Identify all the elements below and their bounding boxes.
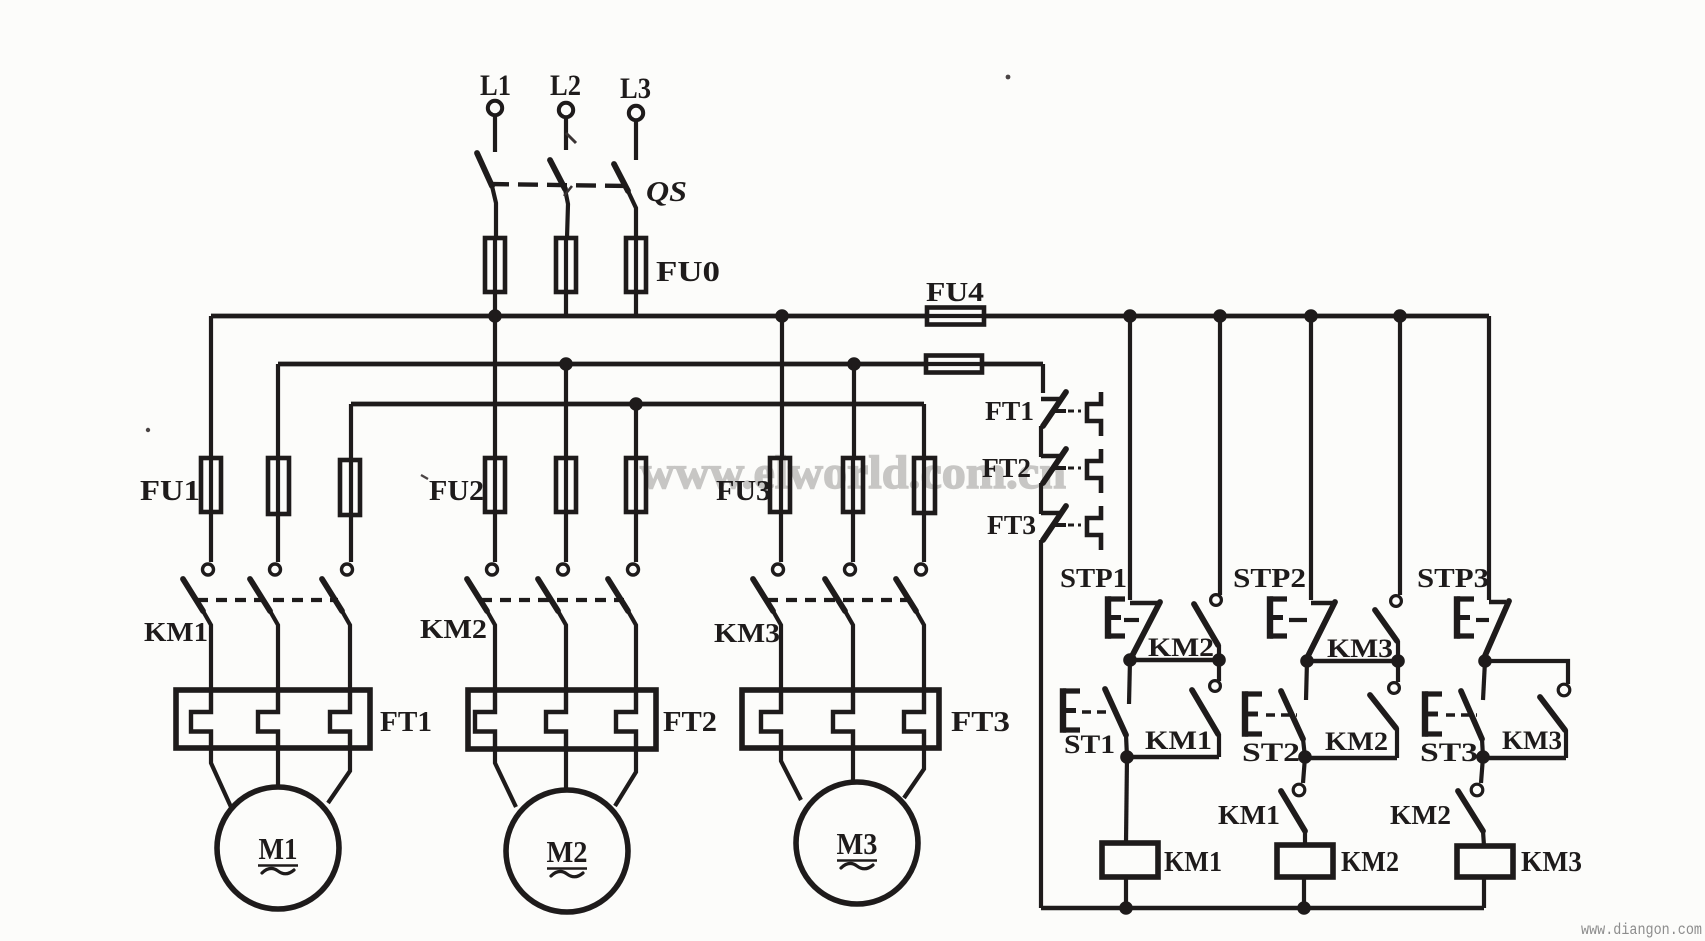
motor M2 xyxy=(506,790,628,912)
label KM3 (self-hold) xyxy=(1502,726,1562,755)
label FU3 xyxy=(716,476,771,507)
label KM1 (interlock) xyxy=(1218,800,1280,830)
fuse FU1 pole 2 xyxy=(268,458,289,562)
wire FT1 to M1 right xyxy=(328,748,350,803)
svg-text:KM3: KM3 xyxy=(1521,847,1582,878)
label FU4 xyxy=(926,277,984,307)
wire L3 stem xyxy=(634,121,638,161)
label FT2 (heater) xyxy=(663,707,717,738)
junction bus1-L1 xyxy=(488,309,502,323)
fuse FU2 pole 2 xyxy=(556,458,576,562)
junction bottom-KM1coil xyxy=(1119,901,1133,915)
wire L1 stem xyxy=(493,116,497,153)
contactor KM1 pole 1 xyxy=(183,564,214,691)
KM1 mechanical link (dashed) xyxy=(197,598,338,602)
fuse FU3 pole 2 xyxy=(843,458,863,562)
node branch1 lower xyxy=(1120,750,1134,764)
wire FT2 to M2 left xyxy=(495,749,516,807)
fuse FU3 pole 1 xyxy=(770,458,790,562)
svg-text:STP2: STP2 xyxy=(1233,563,1306,593)
wire FT3 to M3 mid xyxy=(851,748,855,782)
wire FT2 to M2 mid xyxy=(564,749,568,790)
svg-text:M1: M1 xyxy=(259,831,298,866)
node branch3 lower xyxy=(1476,750,1490,764)
motor M3 xyxy=(796,782,918,904)
rail to STP1 xyxy=(1128,316,1132,600)
watermark www.diangon.com xyxy=(1581,921,1702,939)
label STP1 xyxy=(1060,563,1127,593)
svg-text:FU1: FU1 xyxy=(140,476,200,507)
start button ST3 (NO) xyxy=(1425,691,1483,757)
label KM2 (interlock) xyxy=(1390,800,1451,830)
label FT3 (heater) xyxy=(951,707,1010,738)
svg-text:ST2: ST2 xyxy=(1242,738,1300,767)
svg-text:KM2: KM2 xyxy=(1325,727,1388,756)
svg-text:KM2: KM2 xyxy=(1148,633,1214,662)
wire node2' down xyxy=(1303,757,1305,783)
contactor KM1 pole 3 xyxy=(322,564,353,691)
wire FT1 to M1 left xyxy=(211,748,231,807)
rail to KM2 bypass contact xyxy=(1218,316,1222,595)
coil KM1 xyxy=(1102,843,1158,877)
label FT3 (contact) xyxy=(987,510,1036,540)
switch QS pole 2 kink xyxy=(565,189,568,238)
fuse FU4 upper xyxy=(927,308,984,325)
svg-text:M3: M3 xyxy=(837,826,878,861)
wire bus2 to FU1b xyxy=(276,364,280,458)
label STP2 xyxy=(1233,563,1306,593)
contactor KM3 pole 3 xyxy=(896,564,927,691)
svg-text:L3: L3 xyxy=(620,72,651,105)
fuse FU2 pole 3 xyxy=(626,458,646,562)
label KM1 (self-hold) xyxy=(1145,726,1212,755)
switch QS pole 2 blade xyxy=(550,160,565,189)
wire node1 link xyxy=(1130,658,1219,662)
svg-text:L2: L2 xyxy=(550,69,581,102)
rail to KM3 bypass contact xyxy=(1398,316,1402,595)
label STP3 xyxy=(1417,563,1489,593)
wire node1' link xyxy=(1307,659,1398,663)
svg-text:KM2: KM2 xyxy=(1390,800,1451,830)
svg-text:www.diangon.com: www.diangon.com xyxy=(1581,921,1702,939)
svg-text:FT2: FT2 xyxy=(663,707,717,738)
wire node2'' link xyxy=(1484,756,1566,760)
wire node1' to ST2 xyxy=(1306,661,1307,700)
label ST3 xyxy=(1420,738,1478,767)
svg-text:KM2: KM2 xyxy=(420,614,487,644)
contactor KM1 pole 2 xyxy=(250,564,281,691)
svg-text:STP3: STP3 xyxy=(1417,563,1489,593)
contact KM3 (bypass, NO) xyxy=(1375,596,1401,661)
contact KM1 (self-hold, NO) xyxy=(1192,660,1220,757)
terminal L3 xyxy=(629,106,643,120)
switch QS pole 1 blade xyxy=(477,153,492,186)
KM2 mechanical link (dashed) xyxy=(481,598,624,602)
wire bus2 fuse to FT contacts xyxy=(1041,364,1045,393)
svg-text:KM3: KM3 xyxy=(714,618,780,648)
svg-text:ST3: ST3 xyxy=(1420,738,1478,767)
node branch2 lower xyxy=(1298,750,1312,764)
watermark www.elworld.com.cn xyxy=(640,447,1066,499)
node branch2 upper right xyxy=(1391,654,1405,668)
label KM2 (coil) xyxy=(1341,847,1399,878)
contactor KM2 pole 1 xyxy=(467,564,498,691)
label L2 xyxy=(550,69,581,102)
switch QS pole 1 kink xyxy=(492,186,496,238)
rail to STP3 xyxy=(1487,316,1491,600)
scan speck 5 xyxy=(421,475,428,479)
motor M1 xyxy=(217,787,339,909)
label FT1 (heater) xyxy=(380,707,432,738)
label KM2 (bypass) xyxy=(1148,633,1214,662)
stop button STP1 (NC) xyxy=(1108,596,1160,658)
svg-text:M2: M2 xyxy=(547,834,588,869)
scan speck 3 xyxy=(146,428,150,432)
junction bus1-rail3 xyxy=(1304,309,1318,323)
bus line 3 (phase C) xyxy=(351,402,924,407)
wire bus1 to FU1a xyxy=(209,316,213,458)
label L1 xyxy=(480,69,511,102)
bus line 1 (phase A) xyxy=(211,314,1489,319)
scan speck 2 xyxy=(564,186,572,196)
node branch1 upper right xyxy=(1212,653,1226,667)
label KM3 (bypass) xyxy=(1327,634,1393,663)
label KM2 (main contacts) xyxy=(420,614,487,644)
label KM3 (coil) xyxy=(1521,847,1582,878)
thermal relay FT2 heater box xyxy=(468,690,656,749)
fuse FU4 lower xyxy=(926,356,982,373)
wire L1 col to FU2a xyxy=(493,316,497,458)
svg-text:KM1: KM1 xyxy=(144,617,208,647)
svg-text:ST1: ST1 xyxy=(1064,730,1115,759)
svg-text:STP1: STP1 xyxy=(1060,563,1127,593)
scan speck 4 xyxy=(1006,75,1011,80)
thermal contact FT2 (NC) xyxy=(1041,449,1101,514)
coil KM3 xyxy=(1457,846,1513,877)
label KM2 (self-hold) xyxy=(1325,727,1388,756)
label KM1 (coil) xyxy=(1164,847,1222,878)
stop button STP3 (NC) xyxy=(1457,596,1509,658)
contactor KM3 pole 1 xyxy=(753,564,784,691)
thermal relay FT3 heater box xyxy=(742,690,939,748)
contact KM2 (self-hold, NO) xyxy=(1370,661,1399,758)
fuse FU0 pole 1 xyxy=(485,238,505,316)
label L3 xyxy=(620,72,651,105)
fuse FU3 pole 3 xyxy=(914,458,935,562)
junction bus1-M3a xyxy=(775,309,789,323)
junction bus2-M3b xyxy=(847,357,861,371)
wire coil KM1 to bus xyxy=(1124,877,1128,908)
contactor KM2 pole 2 xyxy=(538,564,569,691)
junction bus1-rail1 xyxy=(1123,309,1137,323)
contactor KM2 pole 3 xyxy=(608,564,639,691)
fuse FU2 pole 1 xyxy=(485,458,505,562)
svg-text:FT1: FT1 xyxy=(985,396,1034,426)
wire node1'' link and corner xyxy=(1485,661,1568,684)
svg-text:KM1: KM1 xyxy=(1218,800,1280,830)
fuse FU0 pole 3 xyxy=(626,238,646,316)
wire node1'' to ST3 xyxy=(1483,661,1485,700)
wire bus1 to FU3a xyxy=(780,316,784,458)
junction bus3-L3 xyxy=(629,397,643,411)
wire node2'' down xyxy=(1481,757,1483,783)
wire bus3 corner to FU3c xyxy=(922,404,926,458)
contactor KM3 pole 2 xyxy=(825,564,856,691)
svg-text:KM3: KM3 xyxy=(1327,634,1393,663)
node branch3 upper xyxy=(1478,654,1492,668)
wire FT1 to M1 mid xyxy=(276,748,280,787)
svg-text:FU4: FU4 xyxy=(926,277,984,307)
label FU1 xyxy=(140,476,200,507)
wire coil KM2 to bus xyxy=(1302,877,1306,908)
switch QS pole 3 blade xyxy=(614,164,628,191)
node branch2 upper xyxy=(1300,654,1314,668)
start button ST1 (NO) xyxy=(1063,688,1127,757)
junction bus2-L2 xyxy=(559,357,573,371)
svg-text:QS: QS xyxy=(646,177,687,208)
start button ST2 (NO) xyxy=(1245,691,1305,757)
wire node1 to ST1 xyxy=(1129,660,1130,704)
label ST2 xyxy=(1242,738,1300,767)
svg-text:FT3: FT3 xyxy=(987,510,1036,540)
label QS xyxy=(646,177,687,208)
scan speck 1 xyxy=(566,133,576,143)
label FU0 xyxy=(656,257,720,288)
svg-text:KM1: KM1 xyxy=(1145,726,1212,755)
svg-text:KM1: KM1 xyxy=(1164,847,1222,878)
contact KM2 (bypass, NO) xyxy=(1194,595,1221,660)
wire coil KM3 to bus xyxy=(1482,877,1486,908)
svg-text:FU2: FU2 xyxy=(429,476,484,507)
svg-text:FT2: FT2 xyxy=(982,453,1031,483)
wire FT2 to M2 right xyxy=(615,749,636,806)
QS mechanical link (dashed) xyxy=(489,184,626,186)
bottom control bus xyxy=(1041,906,1484,911)
svg-text:KM3: KM3 xyxy=(1502,726,1562,755)
wire node2 to coil KM1 xyxy=(1126,757,1127,843)
KM3 mechanical link (dashed) xyxy=(767,598,912,602)
rail to STP2 xyxy=(1309,316,1313,600)
label FT1 (contact) xyxy=(985,396,1034,426)
label FT2 (contact) xyxy=(982,453,1031,483)
label FU2 xyxy=(429,476,484,507)
label KM1 (main contacts) xyxy=(144,617,208,647)
junction bus1-rail4 xyxy=(1393,309,1407,323)
svg-text:KM2: KM2 xyxy=(1341,847,1399,878)
wire node2' link xyxy=(1307,756,1397,760)
wire node2 link xyxy=(1127,755,1219,759)
coil KM2 xyxy=(1277,845,1333,877)
wire bus3 to FU1c xyxy=(349,404,353,458)
junction bus1-rail2 xyxy=(1213,309,1227,323)
svg-text:FT1: FT1 xyxy=(380,707,432,738)
svg-text:FT3: FT3 xyxy=(951,707,1010,738)
contact KM3 (self-hold, NO) xyxy=(1540,684,1570,758)
wire L3 col to FU2c xyxy=(634,404,638,458)
fuse FU1 pole 3 xyxy=(340,460,360,562)
thermal contact FT1 (NC) xyxy=(1041,392,1101,457)
thermal relay FT1 heater box xyxy=(176,690,370,748)
svg-text:FU0: FU0 xyxy=(656,257,720,288)
label ST1 xyxy=(1064,730,1115,759)
junction bottom-KM2coil xyxy=(1297,901,1311,915)
thermal contact FT3 (NC) xyxy=(1041,506,1101,908)
wire bus2 to FU3b xyxy=(852,364,856,458)
wire L2 col to FU2b xyxy=(564,364,568,458)
contact KM1 (sequence interlock, NO) xyxy=(1281,784,1305,845)
svg-text:FU3: FU3 xyxy=(716,476,771,507)
fuse FU1 pole 1 xyxy=(201,458,221,562)
terminal L1 xyxy=(488,101,502,115)
fuse FU0 pole 2 xyxy=(556,238,576,316)
wire FT3 to M3 left xyxy=(781,748,801,800)
svg-text:L1: L1 xyxy=(480,69,511,102)
stop button STP2 (NC) xyxy=(1270,596,1335,658)
wire L2 stem xyxy=(564,118,568,151)
label KM3 (main contacts) xyxy=(714,618,780,648)
switch QS pole 3 kink xyxy=(628,191,636,238)
node branch1 upper xyxy=(1123,653,1137,667)
contact KM2 (sequence interlock, NO) xyxy=(1458,784,1484,846)
wire FT3 to M3 right xyxy=(904,748,924,798)
terminal L2 xyxy=(559,103,573,117)
bus line 2 (phase B) xyxy=(278,362,1043,367)
